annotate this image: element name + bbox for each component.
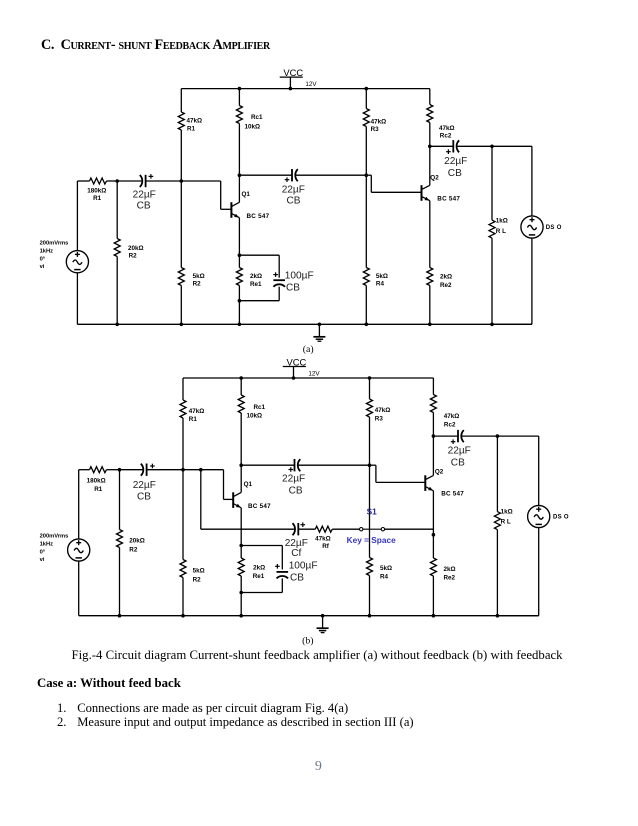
wire: lower node to ground rail (b) [239,593,243,618]
svg-text:R2: R2 [193,576,202,583]
svg-text:47kΩ: 47kΩ [439,125,455,132]
svg-text:20kΩ: 20kΩ [128,245,144,252]
resistor R1 180k source series (a) [87,178,106,202]
svg-text:DS O: DS O [553,514,569,520]
transistor Q1 BC547 (b) [233,481,271,510]
svg-text:Rc2: Rc2 [444,421,456,428]
node: Q1 base/input node (a) [180,179,184,183]
resistor Rc1 10k (b) [238,395,265,420]
svg-text:Rf: Rf [322,543,330,550]
wire: Q1 emitter down (b) [240,508,242,546]
svg-text:Q1: Q1 [244,481,253,488]
ground symbol (b) [317,614,329,633]
wire: input line to R1 series (a) [77,180,89,182]
svg-text:12V: 12V [308,370,320,377]
svg-text:DS O: DS O [546,225,562,231]
svg-text:2kΩ: 2kΩ [440,274,452,281]
wire: VCC rail down to R3 (a) [365,89,367,109]
svg-text:R3: R3 [371,126,380,133]
wire: Q1 emitter down (a) [238,218,240,256]
resistor R4 5k bias (b) [367,558,393,581]
svg-text:CB: CB [448,168,462,179]
svg-text:0°: 0° [40,549,46,555]
node: load node (b) [496,434,500,438]
wire: load node down to RL (a) [491,146,493,220]
wire: VCC rail corner down to Rc2 (a) [429,89,431,105]
wire: RL to ground rail (b) [496,530,500,618]
resistor Re1 2k (b) [238,558,265,580]
wire: feedback tap down from input line (b) [200,470,202,530]
circuit (a): top VCC rail [181,88,429,90]
svg-text:R3: R3 [375,415,384,422]
node: rail junction to Rc1 (a) [238,87,242,91]
svg-text:R L: R L [496,228,506,235]
page number [315,759,322,775]
svg-text:CB: CB [137,201,151,212]
svg-text:47kΩ: 47kΩ [189,408,205,415]
wire: input cap to base node (a) [146,180,182,182]
svg-text:Q2: Q2 [430,174,439,181]
node: Q2 base node (b) [368,463,372,467]
svg-text:47kΩ: 47kΩ [444,413,460,420]
svg-text:47kΩ: 47kΩ [187,118,203,125]
wire: Q1 collector node to interstage cap (b) [241,464,294,466]
wire: emitter node to Re1 (b) [240,546,242,559]
capacitor CB 22uF output coupling (a) [444,140,467,179]
wire: output cap to load node (b) [461,435,497,437]
svg-text:CB: CB [137,491,151,502]
wire: output node to output cap (b) [433,435,458,437]
wire: Q1 base connection from input node (a) [181,181,231,209]
wire: Q2 collector (a) [429,146,431,185]
wire: input line to R1 series (b) [79,469,90,471]
svg-text:R2: R2 [129,253,138,260]
wire: feedback line to Cf crossing Q1 emitter (b) [201,528,295,530]
svg-text:R1: R1 [94,486,103,493]
svg-text:20kΩ: 20kΩ [129,538,145,545]
svg-text:180kΩ: 180kΩ [87,187,106,194]
svg-text:0°: 0° [40,256,46,262]
section title [41,37,270,54]
svg-text:22µF: 22µF [133,480,156,491]
resistor Re1 2k (a) [236,268,262,288]
wire: emitter bypass branch top (b) [241,546,282,570]
resistor R4 5k bias (a) [363,268,388,288]
wire: VCC rail down to R1 bias (b) [182,378,184,400]
svg-text:R1: R1 [93,195,102,202]
svg-text:S1: S1 [367,507,378,517]
svg-text:22µF: 22µF [444,156,467,167]
wire: source down to ground rail (a) [76,273,78,325]
wire: emitter node to Re1 (a) [238,255,240,267]
wire: bypass cap bottom branch (b) [241,578,282,592]
ground rail (b) [79,615,539,617]
svg-text:R2: R2 [129,546,138,553]
node: load node (a) [490,145,494,149]
resistor Rc2 47k (b) [430,395,459,429]
node: Q2 base node (a) [365,173,369,177]
resistor RL 1k load (a) [489,217,508,238]
resistor R2 20k source shunt (a) [114,239,143,260]
wire: VCC rail down to R1 bias (a) [180,89,182,112]
wire: DSO to ground rail (b) [497,527,538,615]
switch S1 Key=Space (b) [347,507,397,545]
wire: Q2 emitter down through feedback junction to Re2 (b) [432,491,434,558]
svg-text:5kΩ: 5kΩ [193,273,205,280]
wire: R1 to shunt node (b) [107,469,120,471]
wire: load node down to RL (b) [496,436,498,512]
node: Q1 collector output node (a) [238,173,242,177]
svg-text:200mVrms: 200mVrms [40,240,69,246]
svg-text:Cf: Cf [291,548,301,559]
resistor Rc1 10k (a) [236,106,263,131]
wire: bypass cap bottom branch (a) [239,287,279,301]
oscilloscope source DSO (a) [521,216,562,238]
svg-text:47kΩ: 47kΩ [315,536,331,543]
wire: Re2 to ground rail (a) [428,286,432,327]
wire: source down to ground rail (b) [78,561,80,616]
svg-text:1kΩ: 1kΩ [501,508,513,515]
svg-text:CB: CB [290,573,304,584]
svg-text:BC 547: BC 547 [248,503,271,510]
wire: Q2 base node down to R4 (a) [365,175,367,267]
svg-text:Re2: Re2 [440,282,452,289]
wire: Q2 base connection (b) [370,465,426,482]
svg-text:VCC: VCC [287,357,307,368]
wire: Rc1 to Q1 collector node (b) [240,413,242,465]
svg-text:CB: CB [286,282,300,293]
svg-text:1kHz: 1kHz [40,248,54,254]
svg-text:R L: R L [501,519,511,526]
svg-text:Rc1: Rc1 [251,114,263,121]
node: rail junction to R3 (b) [368,376,372,380]
wire: interstage cap to Q2 bias node (b) [298,464,370,466]
svg-text:Key = Space: Key = Space [347,535,397,545]
svg-text:Re1: Re1 [253,573,265,580]
wire: VCC rail down to R3 (b) [369,378,371,399]
circuit (b): top VCC rail [183,377,433,379]
svg-text:CB: CB [287,196,301,207]
VCC power symbol (a) [280,67,304,90]
list item 2 [57,715,66,730]
node: Q2 collector output node (a) [428,145,432,149]
svg-text:VCC: VCC [283,67,303,78]
wire: R1 to input node (b) [182,418,184,470]
svg-text:10kΩ: 10kΩ [247,413,263,420]
case heading [37,676,181,691]
svg-text:CB: CB [289,485,303,496]
resistor R2 20k source shunt (b) [117,530,145,554]
label (a) [303,344,314,355]
wire: R3 to Q2 base node (a) [365,127,367,176]
wire: R3 to Q2 base node (b) [369,417,371,465]
resistor R1 47k bias (a) [178,112,202,132]
svg-text:Re1: Re1 [250,281,262,288]
svg-text:100µF: 100µF [285,270,314,281]
wire: VCC rail down to Rc1 (a) [238,89,240,106]
wire: Q1 collector node to interstage cap (a) [239,174,292,176]
svg-text:2kΩ: 2kΩ [250,273,262,280]
wire: Q1 collector (a) [238,175,240,202]
wire: Q2 emitter down to Re2 (a) [429,201,431,268]
svg-text:200mVrms: 200mVrms [40,533,69,539]
resistor R2 5k bias (a) [178,268,204,288]
svg-text:22µF: 22µF [282,474,305,485]
resistor R3 47k bias (b) [367,399,391,422]
wire: lower node to ground rail (a) [238,301,242,326]
ac source vi 200mVrms (b) [40,533,90,563]
wire: input cap to base node (b) [147,469,183,471]
wire: Re1 to lower node (a) [238,286,240,301]
wire: Cf to Rf (b) [298,528,315,530]
svg-text:5kΩ: 5kΩ [193,567,205,574]
svg-text:5kΩ: 5kΩ [376,273,388,280]
resistor RL 1k load (b) [494,508,512,529]
ac source vi 200mVrms (a) [40,240,89,272]
wire: R4 to ground rail (a) [365,286,369,327]
svg-text:R4: R4 [376,281,385,288]
svg-text:1kHz: 1kHz [40,541,54,547]
resistor Re2 2k (a) [427,268,452,290]
svg-text:BC 547: BC 547 [437,196,460,203]
capacitor CB 100uF emitter bypass (a) [273,270,313,293]
svg-text:Q1: Q1 [242,191,251,198]
node: Q1 collector output node (b) [239,463,243,467]
node: feedback junction on Q2 emitter (b) [432,533,436,537]
wire: input node down to R2 bias (b) [182,470,184,560]
VCC power symbol (b) [283,357,307,380]
wire: R4 to ground rail (b) [368,576,372,618]
wire: emitter node bypass branch top (a) [239,255,279,278]
svg-text:R4: R4 [380,574,389,581]
wire: R2 to ground rail (a) [180,286,184,327]
capacitor CB 22uF input coupling (b) [133,464,156,503]
figure caption [72,648,563,663]
svg-text:(a): (a) [303,344,314,355]
svg-text:100µF: 100µF [289,561,318,572]
resistor R1 180k source series (b) [87,467,107,493]
wire: R2 to ground rail (b) [181,578,185,618]
resistor R1 47k bias (b) [180,400,204,423]
wire: R1 to shunt node (a) [107,180,118,182]
transistor Q2 BC547 (b) [425,469,464,498]
capacitor CB 22uF output coupling (b) [448,430,471,469]
wire: Q2 base connection (a) [366,175,421,192]
wire: Rc2 to Q2 collector/output node (a) [429,123,431,147]
wire: Q2 base node down to R4 crossing switch line (b) [369,465,371,557]
node: Re1 bottom node (b) [239,591,243,595]
wire: R1 to input node (a) [180,130,182,181]
capacitor CB 100uF emitter bypass (b) [275,561,317,584]
label (b) [302,635,313,646]
wire: input node down to R2 bias (a) [180,181,182,268]
svg-text:12V: 12V [305,81,317,88]
ground rail (a) [77,323,532,325]
list item 1 [57,701,66,716]
resistor Re2 2k (b) [430,558,455,581]
wire: shunt node to input cap (a) [117,180,142,182]
svg-text:R2: R2 [193,281,202,288]
wire: Q1 collector (b) [240,465,242,492]
resistor R2 5k bias (b) [180,560,205,584]
wire: DSO to ground rail (a) [492,238,532,324]
resistor R3 47k bias (a) [363,109,386,134]
node: Q1 emitter node (a) [238,253,242,257]
capacitor CB 22uF input coupling (a) [133,174,156,211]
wire: Rf to switch S1 (b) [332,528,359,530]
node: Q1 base/input node (b) [181,468,185,472]
svg-text:BC 547: BC 547 [247,213,270,220]
transistor Q1 BC547 (a) [231,191,269,220]
label 12V (b) [308,370,320,377]
svg-text:BC 547: BC 547 [441,490,464,497]
wire: output cap to load node (a) [457,145,492,147]
svg-text:2kΩ: 2kΩ [253,564,265,571]
resistor Rf 47k feedback (b) [315,526,332,550]
wire: shunt node to input cap (b) [120,469,144,471]
svg-text:22µF: 22µF [282,184,305,195]
wire: source up to input line (b) [78,470,80,540]
wire: Rc2 to Q2 collector/output node (b) [432,413,434,437]
node: Q2 collector output node (b) [432,434,436,438]
wire: VCC rail down to Rc1 (b) [240,378,242,395]
svg-text:Rc1: Rc1 [254,404,266,411]
wire: Q1 base connection from input node (b) [183,470,233,500]
transistor Q2 BC547 (a) [422,174,461,202]
capacitor CB 22uF interstage coupling (b) [282,459,305,496]
wire: RL to ground rail (a) [490,238,494,326]
svg-text:CB: CB [451,458,465,469]
svg-text:5kΩ: 5kΩ [380,565,392,572]
svg-text:vi: vi [40,264,45,270]
wire: R2 20k to ground rail (b) [118,548,122,618]
svg-text:47kΩ: 47kΩ [371,118,387,125]
wire: switch to Q2 emitter (b) [385,528,434,530]
wire: R2 20k to ground rail (a) [115,257,119,327]
svg-text:Re2: Re2 [444,574,456,581]
node: Re1 bottom node (a) [238,299,242,303]
svg-text:Rc2: Rc2 [440,133,452,140]
ground symbol (a) [313,323,325,342]
node: rail junction to Rc1 (b) [239,376,243,380]
wire: VCC rail corner down to Rc2 (b) [432,378,434,395]
svg-text:10kΩ: 10kΩ [245,124,261,131]
resistor Rc2 47k (a) [427,105,455,140]
node: source shunt node (b) [118,468,122,472]
wire: Q2 collector (b) [432,436,434,475]
wire: shunt node down to R2 20k (b) [119,470,121,530]
wire: source up to input line (a) [76,181,78,251]
svg-text:(b): (b) [302,635,313,646]
capacitor CB 22uF interstage coupling (a) [282,169,305,207]
svg-text:2kΩ: 2kΩ [444,566,456,573]
node: Q1 emitter node (b) [239,544,243,548]
svg-text:22µF: 22µF [133,189,156,200]
wire: interstage cap to Q2 bias node (a) [295,174,366,176]
svg-text:47kΩ: 47kΩ [375,407,391,414]
label 12V (a) [305,81,317,88]
wire: Rc1 to Q1 collector node (a) [238,124,240,176]
wire: Re2 to ground rail (b) [432,576,436,618]
oscilloscope source DSO (b) [528,505,569,527]
svg-text:Q2: Q2 [435,469,444,476]
wire: load node to DSO branch (a) [492,146,532,216]
svg-text:R1: R1 [189,416,198,423]
node: rail junction to R3 (a) [365,87,369,91]
svg-text:180kΩ: 180kΩ [87,477,106,484]
svg-text:22µF: 22µF [448,446,471,457]
capacitor Cf 22uF feedback (b) [285,522,308,559]
node: feedback tap on input line (b) [199,468,203,472]
wire: Re1 to lower node (b) [240,576,242,593]
node: source shunt node (a) [115,179,119,183]
wire: output node to output cap (a) [430,145,454,147]
wire: load node to DSO branch (b) [497,436,538,506]
svg-text:R1: R1 [187,125,196,132]
svg-text:vi: vi [40,557,45,563]
svg-text:1kΩ: 1kΩ [496,217,508,224]
wire: shunt node down to R2 20k (a) [116,181,118,239]
